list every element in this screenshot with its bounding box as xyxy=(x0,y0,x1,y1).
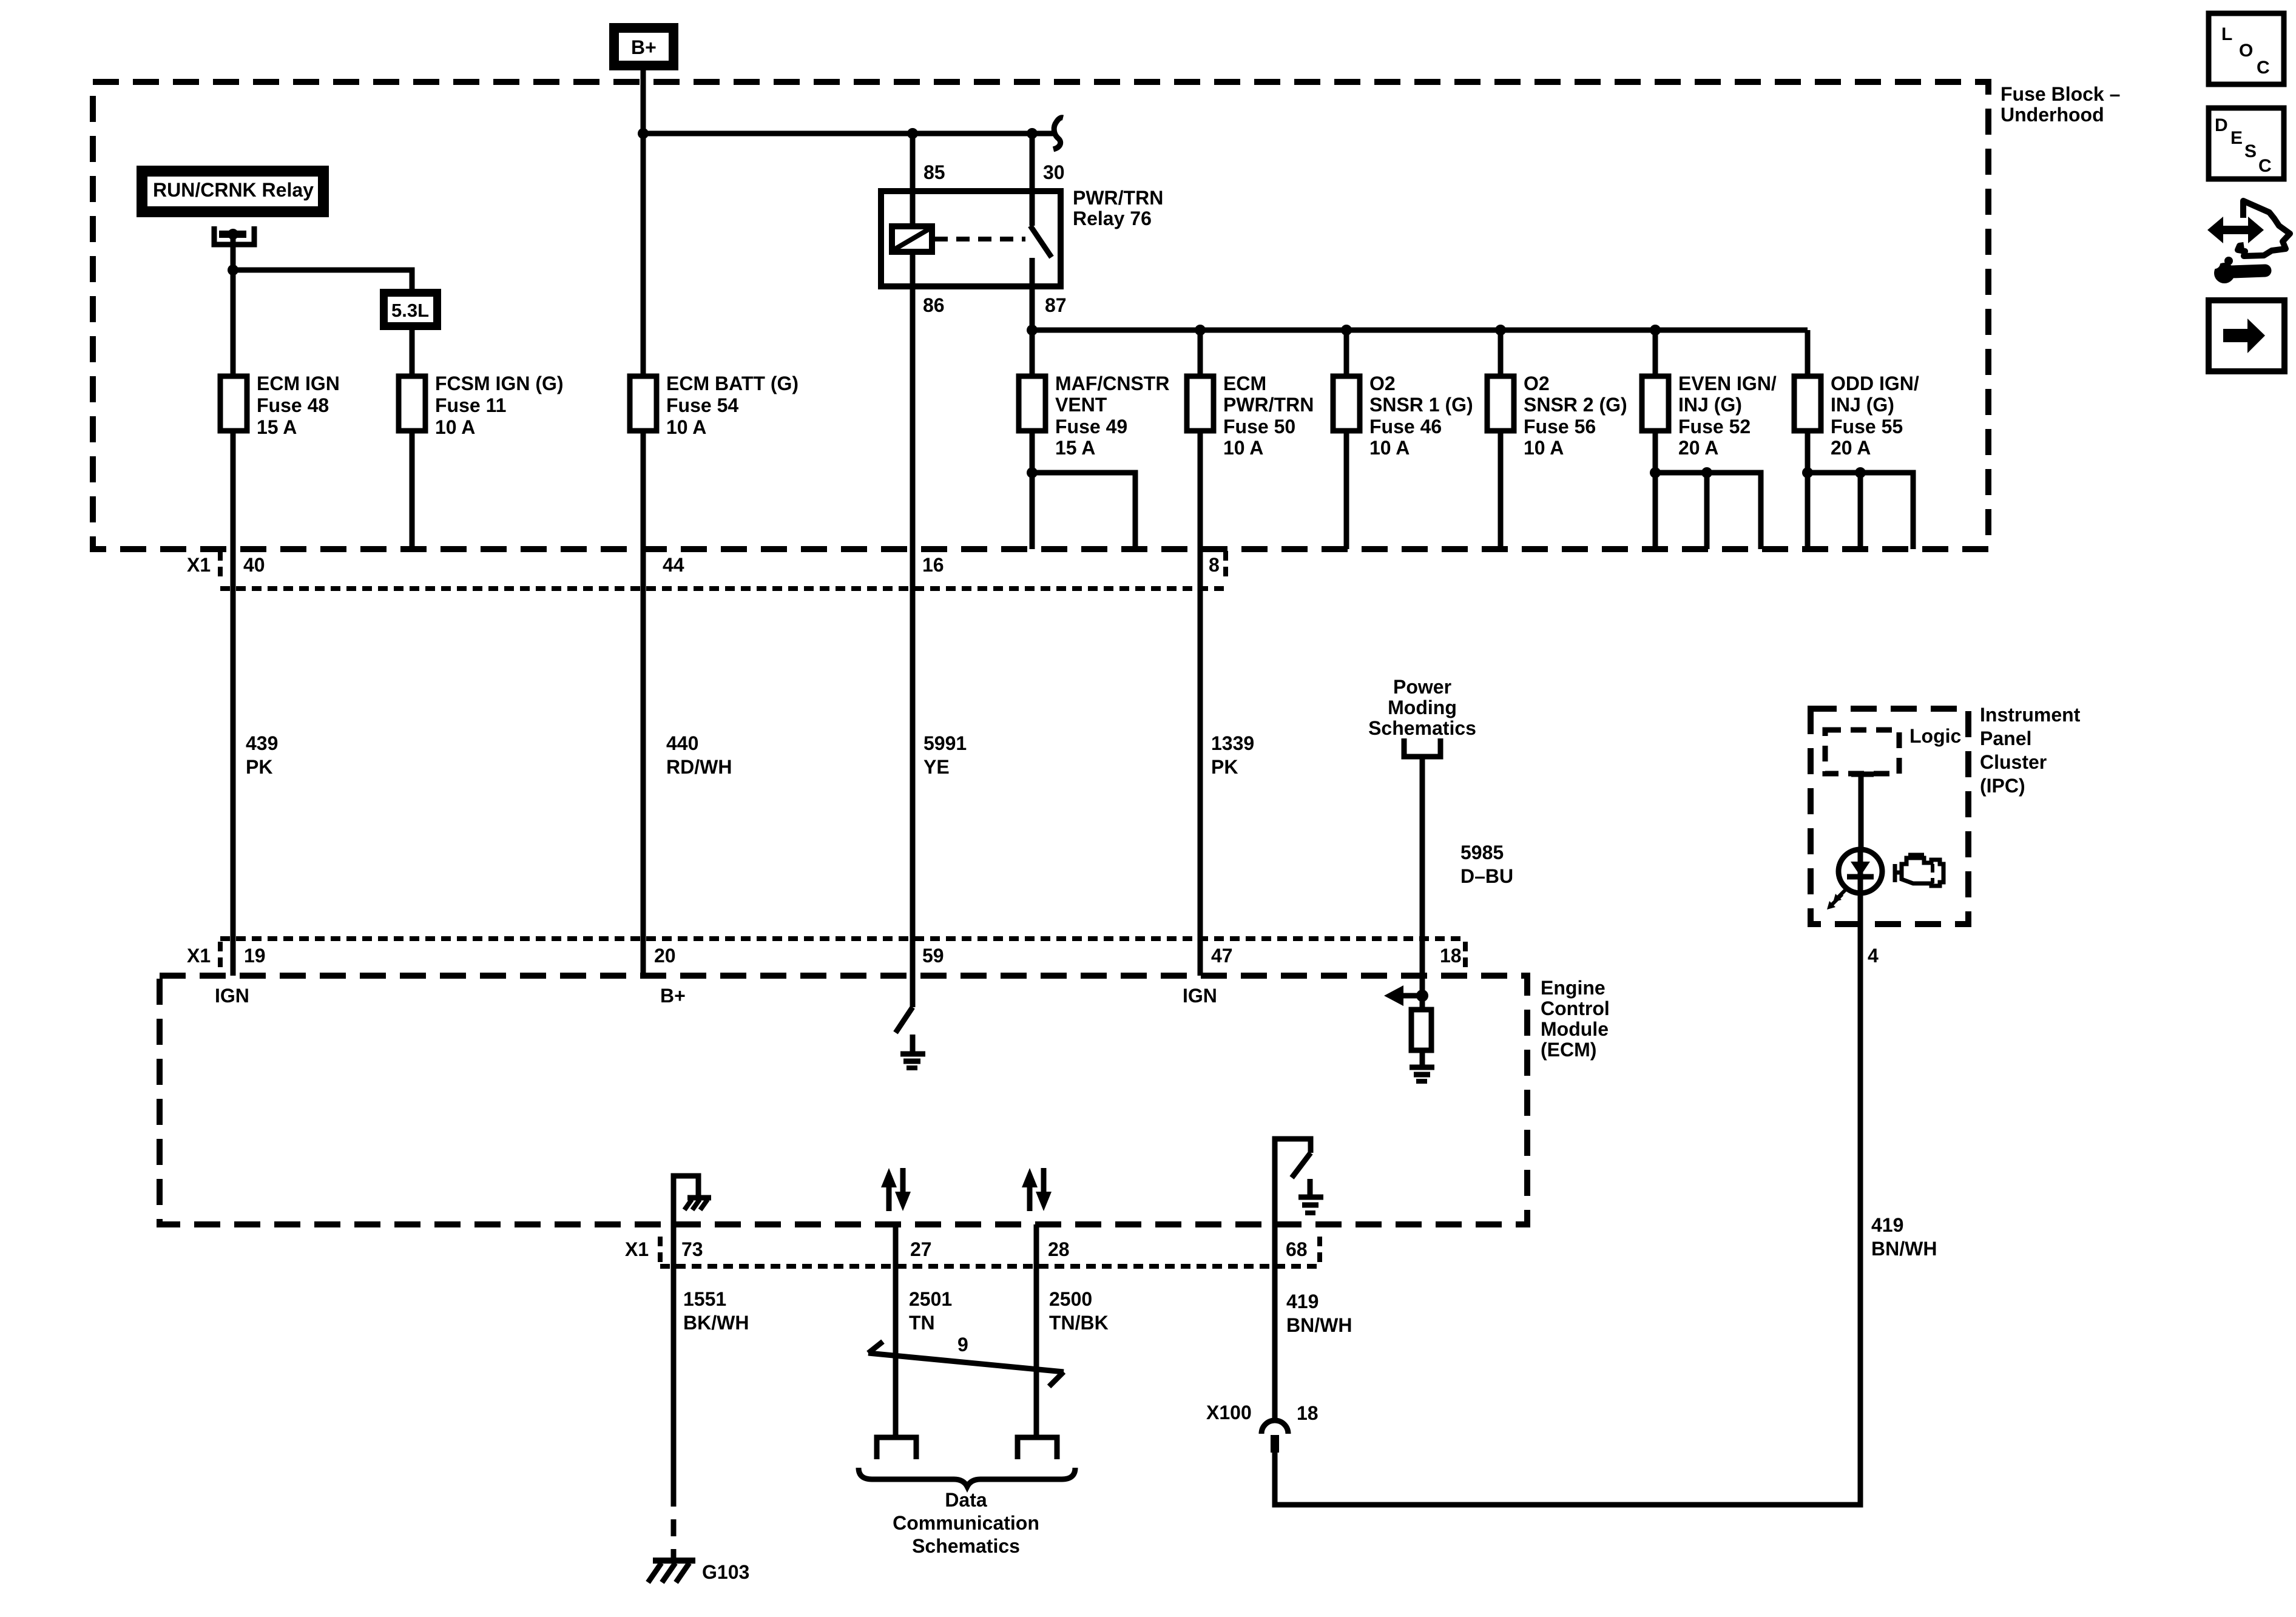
svg-text:10 A: 10 A xyxy=(1369,437,1410,459)
wire fuse 50 to pin 8 xyxy=(1198,431,1203,976)
svg-text:47: 47 xyxy=(1211,945,1233,967)
svg-text:Engine: Engine xyxy=(1541,977,1606,999)
svg-text:O: O xyxy=(2239,41,2253,61)
fuse 55 ODD IGN/INJ xyxy=(1794,376,1821,431)
svg-text:Fuse 55: Fuse 55 xyxy=(1831,416,1903,437)
svg-text:MAF/CNSTR: MAF/CNSTR xyxy=(1055,373,1169,394)
fuse 48 ECM IGN xyxy=(220,376,247,431)
brace data communication xyxy=(859,1468,1075,1487)
fuse 46 O2 SNSR 1 xyxy=(1333,376,1360,431)
svg-text:10 A: 10 A xyxy=(1524,437,1564,459)
ground at pin 68 switch xyxy=(1298,1179,1323,1213)
svg-text:44: 44 xyxy=(663,554,684,576)
svg-text:BK/WH: BK/WH xyxy=(683,1312,749,1334)
svg-text:439: 439 xyxy=(246,732,278,754)
svg-text:X100: X100 xyxy=(1206,1402,1252,1423)
svg-text:10 A: 10 A xyxy=(435,416,475,438)
svg-text:X1: X1 xyxy=(187,945,211,967)
svg-text:X1: X1 xyxy=(625,1238,649,1260)
wire branch to 5.3L xyxy=(233,270,412,289)
svg-text:28: 28 xyxy=(1048,1238,1070,1260)
wire 2500 TN/BK xyxy=(1034,1224,1039,1436)
svg-text:D–BU: D–BU xyxy=(1460,865,1513,887)
wire bus corner to fuse 55 xyxy=(1805,330,1811,376)
svg-text:O2: O2 xyxy=(1524,373,1550,394)
svg-text:10 A: 10 A xyxy=(666,416,706,438)
svg-text:86: 86 xyxy=(923,294,945,316)
svg-text:VENT: VENT xyxy=(1055,394,1107,416)
Power Moding Schematics reference xyxy=(1368,676,1476,757)
svg-text:30: 30 xyxy=(1043,161,1065,183)
svg-text:Fuse 50: Fuse 50 xyxy=(1223,416,1295,437)
svg-text:20 A: 20 A xyxy=(1831,437,1871,459)
connector X100 pin 18 xyxy=(1206,1402,1319,1453)
svg-text:8: 8 xyxy=(1209,554,1220,576)
svg-text:PK: PK xyxy=(246,756,272,778)
wire bus to relay pin 30 xyxy=(1030,133,1035,226)
svg-text:73: 73 xyxy=(681,1238,703,1260)
wire RUN/CRNK to fuse 48 xyxy=(231,234,236,549)
relay coil-contact dashed link xyxy=(934,237,1025,241)
svg-text:85: 85 xyxy=(923,161,945,183)
svg-text:Fuse 11: Fuse 11 xyxy=(435,394,506,416)
svg-text:YE: YE xyxy=(923,756,950,778)
svg-text:Power: Power xyxy=(1393,676,1451,698)
wire fuse 55 fork xyxy=(1805,431,1811,549)
ECM internal switch at pin 59 xyxy=(896,976,913,1033)
svg-text:Data: Data xyxy=(945,1489,987,1511)
svg-text:B+: B+ xyxy=(631,36,657,58)
svg-text:10 A: 10 A xyxy=(1223,437,1263,459)
ground at pin 59 switch xyxy=(900,1035,925,1068)
connector terminal wire 27 xyxy=(877,1437,916,1459)
svg-text:419: 419 xyxy=(1871,1214,1903,1236)
svg-text:PWR/TRN: PWR/TRN xyxy=(1073,187,1163,209)
svg-text:ECM BATT (G): ECM BATT (G) xyxy=(666,373,799,394)
icon LOC box xyxy=(2209,13,2284,84)
ground at pin 18 resistor xyxy=(1410,1050,1434,1081)
svg-text:G103: G103 xyxy=(702,1561,749,1583)
svg-text:18: 18 xyxy=(1297,1402,1319,1424)
wire X100 to IPC xyxy=(1275,924,1860,1505)
svg-text:4: 4 xyxy=(1868,945,1879,967)
wire bus to fuse 52 xyxy=(1653,330,1658,376)
svg-text:9: 9 xyxy=(957,1334,968,1355)
svg-text:O2: O2 xyxy=(1369,373,1396,394)
wire 1551 BK/WH xyxy=(671,1224,677,1490)
svg-text:TN/BK: TN/BK xyxy=(1049,1312,1109,1334)
B+ power symbol box xyxy=(609,23,678,70)
svg-text:5985: 5985 xyxy=(1460,842,1504,863)
svg-text:IGN: IGN xyxy=(215,985,249,1007)
svg-text:15 A: 15 A xyxy=(1055,437,1095,459)
wire bus to relay pin 85 xyxy=(910,133,916,226)
fused output bus from pin 87 xyxy=(1032,328,1808,333)
wire fuse 52 fork xyxy=(1653,431,1658,549)
svg-text:Fuse Block –: Fuse Block – xyxy=(2001,83,2120,105)
svg-text:Module: Module xyxy=(1541,1018,1609,1040)
wire bus to fuse 56 xyxy=(1498,330,1504,376)
wire fuse 56 down xyxy=(1498,431,1504,549)
IPC dashed box xyxy=(1811,709,1968,924)
logic module dashed box xyxy=(1825,730,1899,774)
svg-text:INJ (G): INJ (G) xyxy=(1831,394,1894,416)
resistor at pin 18 xyxy=(1411,1010,1431,1050)
svg-text:Panel: Panel xyxy=(1980,727,2031,749)
svg-text:2501: 2501 xyxy=(909,1288,952,1310)
wire relay 86 down xyxy=(910,252,916,549)
RUN/CRNK Relay box xyxy=(137,166,329,217)
svg-text:Fuse 56: Fuse 56 xyxy=(1524,416,1596,437)
svg-text:Underhood: Underhood xyxy=(2001,104,2104,126)
svg-text:(IPC): (IPC) xyxy=(1980,775,2025,797)
wire 5985 D-BU xyxy=(1420,757,1425,996)
engine icon MIL xyxy=(1895,855,1943,886)
svg-text:1339: 1339 xyxy=(1211,732,1254,754)
svg-text:Cluster: Cluster xyxy=(1980,751,2047,773)
svg-text:15 A: 15 A xyxy=(257,416,297,438)
svg-text:Fuse 54: Fuse 54 xyxy=(666,394,738,416)
svg-text:ODD IGN/: ODD IGN/ xyxy=(1831,373,1919,394)
fuse 52 EVEN IGN/INJ xyxy=(1642,376,1669,431)
svg-text:SNSR 1 (G): SNSR 1 (G) xyxy=(1369,394,1473,416)
twisted pair crossing 9 xyxy=(868,1334,1064,1386)
svg-text:BN/WH: BN/WH xyxy=(1286,1314,1352,1336)
svg-text:19: 19 xyxy=(244,945,266,967)
wire 439 PK xyxy=(231,549,236,976)
connector terminal wire 28 xyxy=(1018,1437,1057,1459)
svg-text:Fuse 49: Fuse 49 xyxy=(1055,416,1127,437)
ECM internal pull-up at pin 18 xyxy=(1384,976,1428,1010)
svg-text:1551: 1551 xyxy=(683,1288,726,1310)
5.3L box xyxy=(380,289,441,330)
svg-text:Instrument: Instrument xyxy=(1980,704,2081,726)
serial data arrows at pin 28 xyxy=(1022,1168,1052,1211)
svg-text:40: 40 xyxy=(243,554,265,576)
svg-text:X1: X1 xyxy=(187,554,211,576)
icon DESC box xyxy=(2209,108,2284,179)
fuse 56 O2 SNSR 2 xyxy=(1487,376,1514,431)
wire 440 RD/WH xyxy=(641,549,646,976)
svg-text:18: 18 xyxy=(1440,945,1462,967)
svg-text:Relay 76: Relay 76 xyxy=(1073,208,1152,229)
icon vehicle with arrows and wrench xyxy=(2207,201,2290,283)
svg-text:Fuse 46: Fuse 46 xyxy=(1369,416,1442,437)
svg-text:ECM IGN: ECM IGN xyxy=(257,373,340,394)
wire 2501 TN xyxy=(893,1224,899,1436)
wire 5991 YE xyxy=(910,549,916,976)
wire 419 BN/WH from pin 68 xyxy=(1272,1224,1278,1420)
fuse 49 MAF/CNSTR VENT xyxy=(1019,376,1045,431)
svg-text:B+: B+ xyxy=(660,985,686,1007)
svg-text:Logic: Logic xyxy=(1909,725,1961,747)
icon arrow box xyxy=(2209,300,2284,371)
svg-text:C: C xyxy=(2258,156,2272,176)
svg-text:Fuse 52: Fuse 52 xyxy=(1678,416,1751,437)
wire fuse 46 down xyxy=(1344,431,1349,549)
svg-text:Schematics: Schematics xyxy=(912,1535,1020,1557)
svg-text:5991: 5991 xyxy=(923,732,967,754)
ECM internal switch at pin 68 xyxy=(1275,1139,1311,1224)
svg-text:RD/WH: RD/WH xyxy=(666,756,732,778)
wire relay 87 down xyxy=(1030,258,1035,376)
svg-text:C: C xyxy=(2257,58,2270,78)
wire continuation squiggle xyxy=(1053,118,1063,149)
svg-text:87: 87 xyxy=(1045,294,1067,316)
svg-text:PWR/TRN: PWR/TRN xyxy=(1223,394,1314,416)
svg-text:L: L xyxy=(2221,24,2232,44)
fuse 54 ECM BATT xyxy=(630,376,657,431)
fuse 11 FCSM IGN xyxy=(399,376,425,431)
node junction to fuse 11 branch xyxy=(228,265,238,275)
wire logic to MIL lamp xyxy=(1851,774,1874,849)
svg-text:D: D xyxy=(2215,115,2228,135)
X1 connector row ECM inputs xyxy=(187,939,1465,972)
svg-text:RUN/CRNK Relay: RUN/CRNK Relay xyxy=(153,179,314,201)
PWR/TRN relay 76 box xyxy=(881,191,1061,286)
X1 connector row fuse block outputs xyxy=(187,551,1226,589)
wire 1551 dashed section xyxy=(671,1490,677,1561)
svg-text:27: 27 xyxy=(910,1238,932,1260)
wire bus to fuse 46 xyxy=(1344,330,1349,376)
svg-text:BN/WH: BN/WH xyxy=(1871,1238,1937,1260)
wire 5.3L to fuse 11 xyxy=(410,330,415,549)
serial data arrows at pin 27 xyxy=(881,1168,911,1211)
svg-text:INJ (G): INJ (G) xyxy=(1678,394,1742,416)
svg-text:20 A: 20 A xyxy=(1678,437,1718,459)
svg-text:PK: PK xyxy=(1211,756,1238,778)
ground G103 xyxy=(648,1561,749,1583)
ECM dashed box xyxy=(160,976,1527,1224)
svg-text:20: 20 xyxy=(654,945,676,967)
fuse 50 ECM PWR/TRN xyxy=(1187,376,1214,431)
svg-text:Fuse 48: Fuse 48 xyxy=(257,394,329,416)
svg-text:TN: TN xyxy=(909,1312,935,1334)
svg-text:S: S xyxy=(2244,141,2257,161)
svg-text:Schematics: Schematics xyxy=(1368,717,1476,739)
svg-text:EVEN IGN/: EVEN IGN/ xyxy=(1678,373,1777,394)
svg-text:Moding: Moding xyxy=(1388,697,1457,718)
top bus B+ distribution xyxy=(643,131,1055,137)
svg-text:SNSR 2 (G): SNSR 2 (G) xyxy=(1524,394,1627,416)
wire fuse 49 fork xyxy=(1030,431,1035,549)
svg-text:Control: Control xyxy=(1541,998,1610,1019)
LED indicator MIL xyxy=(1827,849,1882,924)
svg-text:FCSM IGN (G): FCSM IGN (G) xyxy=(435,373,564,394)
relay switch blade xyxy=(1030,226,1052,257)
X1 connector row ECM bottom xyxy=(625,1237,1320,1266)
svg-text:(ECM): (ECM) xyxy=(1541,1039,1596,1061)
svg-text:ECM: ECM xyxy=(1223,373,1266,394)
svg-text:2500: 2500 xyxy=(1049,1288,1092,1310)
wire B+ feed xyxy=(641,70,646,549)
svg-text:E: E xyxy=(2230,128,2243,148)
RUN/CRNK relay output connector xyxy=(214,226,254,245)
svg-text:68: 68 xyxy=(1286,1238,1308,1260)
svg-text:16: 16 xyxy=(922,554,944,576)
svg-text:440: 440 xyxy=(666,732,698,754)
svg-text:59: 59 xyxy=(922,945,944,967)
svg-text:IGN: IGN xyxy=(1183,985,1217,1007)
relay coil xyxy=(892,226,932,252)
svg-text:419: 419 xyxy=(1286,1291,1319,1312)
svg-text:5.3L: 5.3L xyxy=(391,300,429,321)
svg-text:Communication: Communication xyxy=(893,1512,1039,1534)
ECM ground lead pin 73 with chassis ground xyxy=(674,1176,711,1224)
wire bus to fuse 50 xyxy=(1198,330,1203,376)
fuse block - underhood dashed box xyxy=(93,82,1988,549)
